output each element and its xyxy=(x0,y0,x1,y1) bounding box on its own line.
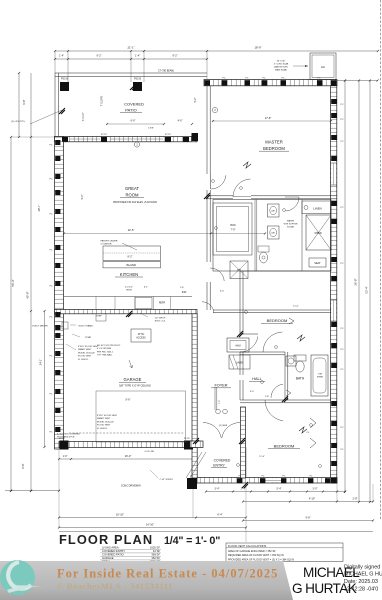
svg-text:369 SF: 369 SF xyxy=(151,553,160,557)
lav fixture lower xyxy=(268,226,280,239)
svg-text:3'-0": 3'-0" xyxy=(313,487,318,490)
patio post PSC-B left xyxy=(60,82,69,91)
front wall stub left xyxy=(190,441,203,448)
extension line master corner xyxy=(206,51,208,80)
shower X diagonal 1 xyxy=(306,215,331,250)
right dim line B xyxy=(358,81,360,503)
svg-text:GARAGE: GARAGE xyxy=(124,377,142,382)
tub/shower xyxy=(311,355,328,396)
svg-text:45'-8": 45'-8" xyxy=(26,291,30,298)
svg-text:PSC-B: PSC-B xyxy=(61,78,68,80)
svg-text:17'-8": 17'-8" xyxy=(265,116,272,120)
svg-text:5'-0 1/2": 5'-0 1/2" xyxy=(125,287,133,289)
svg-text:PC: PC xyxy=(341,449,344,451)
entry step diagonal 1 xyxy=(190,452,206,478)
bedroom3 entry door arc xyxy=(265,400,283,421)
foyer column circles xyxy=(216,409,221,414)
laundry block south wall xyxy=(240,270,331,272)
svg-text:SMART VENT: SMART VENT xyxy=(78,348,92,351)
svg-text:COVERED PATIO: COVERED PATIO xyxy=(102,553,124,557)
svg-text:CONC DRIVEWAY: CONC DRIVEWAY xyxy=(121,485,142,488)
svg-text:36'-8": 36'-8" xyxy=(354,278,358,285)
svg-text:PC: PC xyxy=(281,78,284,80)
range box xyxy=(135,298,152,309)
svg-text:FLOOD VENT CALCULATIONS: FLOOD VENT CALCULATIONS xyxy=(228,544,266,548)
svg-text:SOLAR: SOLAR xyxy=(287,226,295,229)
svg-text:PC: PC xyxy=(341,207,344,209)
line above title xyxy=(59,531,373,533)
svg-text:FL 16001.1: FL 16001.1 xyxy=(78,359,89,361)
svg-text:MODEL 1540-520: MODEL 1540-520 xyxy=(78,352,96,354)
counter division xyxy=(134,297,136,310)
svg-text:1'-4": 1'-4" xyxy=(135,55,140,58)
posts along south exterior wall xyxy=(237,478,242,483)
BeachesMLS teal wave logo xyxy=(0,560,43,595)
bottom-left horizontal dim connector xyxy=(5,490,60,492)
svg-text:4'-10": 4'-10" xyxy=(309,497,315,500)
svg-text:ISLAND: ISLAND xyxy=(126,263,136,267)
covered patio top tie-beam wall xyxy=(55,72,207,74)
bath west wall xyxy=(284,352,286,400)
svg-text:PC: PC xyxy=(49,317,52,319)
svg-text:11'-4": 11'-4" xyxy=(259,456,265,458)
counter division xyxy=(153,297,155,310)
kitchen counter front edge xyxy=(64,296,192,298)
SE corner post xyxy=(331,478,337,484)
hall-laundry door arc xyxy=(210,268,224,281)
svg-text:FL 16001.1: FL 16001.1 xyxy=(97,428,108,430)
left dim line 24'-1 xyxy=(44,311,46,447)
svg-text:W SCREEN 4 FLR: W SCREEN 4 FLR xyxy=(57,437,75,439)
BEDROOM underline xyxy=(259,150,289,152)
svg-text:ROOM: ROOM xyxy=(125,192,139,197)
island inner dashed line xyxy=(103,252,161,254)
master south wall east part xyxy=(251,195,337,197)
right exterior wall (hatched) xyxy=(331,86,337,483)
bath door arc xyxy=(271,384,283,398)
svg-text:FLOOD VENT: FLOOD VENT xyxy=(78,356,92,358)
extension line post 1 xyxy=(67,51,69,82)
garage south wall xyxy=(59,442,193,448)
hall west wall lower xyxy=(239,352,241,375)
leader tstat xyxy=(72,334,80,337)
kitchen dim line 22'-5 xyxy=(64,233,265,235)
svg-text:9'-8": 9'-8" xyxy=(22,99,26,104)
svg-text:PATIO: PATIO xyxy=(125,107,136,112)
svg-text:For Inside Real Estate - 04/07: For Inside Real Estate - 04/07/2025 xyxy=(57,567,278,581)
svg-text:GARAGE: GARAGE xyxy=(102,556,114,560)
svg-text:LIVING AREA: LIVING AREA xyxy=(102,546,119,550)
leader step xyxy=(140,313,148,317)
svg-text:PSC-B: PSC-B xyxy=(134,78,141,80)
svg-text:6'-0": 6'-0" xyxy=(220,291,225,293)
svg-text:9'-6": 9'-6" xyxy=(126,399,131,402)
lowest dim row 14'-10 xyxy=(59,527,246,529)
right lower dim row xyxy=(243,520,373,522)
svg-text:7'-9": 7'-9" xyxy=(231,229,236,232)
svg-text:LINEN: LINEN xyxy=(313,207,322,211)
svg-text:ATTIC: ATTIC xyxy=(138,333,145,336)
svg-text:2'-8": 2'-8" xyxy=(265,396,270,398)
svg-text:COVERED: COVERED xyxy=(124,101,144,106)
garage floor arrow xyxy=(129,360,133,368)
svg-text:5'-4": 5'-4" xyxy=(277,487,282,490)
svg-text:PC: PC xyxy=(222,78,225,80)
svg-text:TYP THIS WALL: TYP THIS WALL xyxy=(97,354,113,357)
svg-text:PC: PC xyxy=(245,78,248,80)
svg-text:LINEN: LINEN xyxy=(236,362,244,365)
WIC walk-in closet shelving xyxy=(213,203,252,255)
covered entry SW post xyxy=(187,478,197,489)
linen closet 2 (hall) xyxy=(229,355,250,369)
reference bubble circle xyxy=(134,142,139,147)
right dim line A xyxy=(344,81,346,493)
svg-text:CT-(TIE BEAM): CT-(TIE BEAM) xyxy=(158,70,174,73)
bedroom 2 window gap xyxy=(331,300,336,321)
elect meter box xyxy=(62,322,68,329)
bedroom 3 north wall xyxy=(240,399,331,401)
svg-text:BEDROOM: BEDROOM xyxy=(263,146,285,151)
svg-text:7'-4 1/2": 7'-4 1/2" xyxy=(82,112,85,121)
bath door opening xyxy=(285,196,299,198)
svg-text:SHWR: SHWR xyxy=(314,232,322,235)
svg-text:PC PC: PC PC xyxy=(184,438,191,440)
front door arc right xyxy=(222,423,240,438)
counter division xyxy=(95,297,97,310)
garage width dim 16'-0 xyxy=(59,458,193,460)
leader pantry to island xyxy=(122,243,137,250)
bottom dim row 2 xyxy=(243,501,373,503)
svg-text:PC: PC xyxy=(341,263,344,265)
svg-text:PC: PC xyxy=(49,356,52,358)
ref bubble 2 xyxy=(212,107,217,112)
svg-text:NO EXT GYP PRODUCT: NO EXT GYP PRODUCT xyxy=(97,345,121,347)
svg-text:6/W: 6/W xyxy=(182,290,187,294)
posts PC along right exterior wall xyxy=(331,99,336,104)
svg-text:PC: PC xyxy=(49,250,52,252)
BEDROOM2 underline xyxy=(261,322,293,324)
svg-text:6'-6": 6'-6" xyxy=(131,120,136,123)
leader line steps xyxy=(150,470,158,478)
master toilet xyxy=(258,246,269,252)
bedroom 3 west wall xyxy=(241,407,246,478)
svg-text:MASTER: MASTER xyxy=(265,140,282,145)
master door leaf xyxy=(209,174,211,189)
covered patio left wall xyxy=(54,73,56,137)
right edge dashed property line xyxy=(380,0,382,520)
svg-text:14'-10": 14'-10" xyxy=(146,522,154,526)
bedroom 3 closet rod zigzag xyxy=(310,418,316,448)
svg-text:REQUIRED AREA OF FLOOD VENT =: REQUIRED AREA OF FLOOD VENT = 350 SQ IN xyxy=(228,554,284,557)
svg-text:16'-10": 16'-10" xyxy=(116,512,124,516)
bedroom 3 window gap xyxy=(262,478,283,482)
svg-text:BATH: BATH xyxy=(296,377,305,381)
svg-text:PC: PC xyxy=(49,394,52,396)
lower dim row 16'-10 / 6'-4 xyxy=(59,517,246,519)
svg-text:6'-4": 6'-4" xyxy=(217,512,222,516)
leader AC note xyxy=(293,65,308,67)
svg-text:PC: PC xyxy=(49,432,52,434)
step edge line 2 xyxy=(105,314,107,321)
covered entry east edge xyxy=(245,448,247,479)
NE corner post xyxy=(331,80,337,85)
bottom dim row 1 xyxy=(206,491,345,493)
bath north wall / hall xyxy=(240,351,285,353)
master bedroom door arc xyxy=(233,179,250,197)
svg-text:SMART VENT: SMART VENT xyxy=(97,417,111,420)
master window center line xyxy=(333,163,335,185)
left dim line 9'-8 patio xyxy=(18,73,20,137)
svg-text:PC: PC xyxy=(341,141,344,143)
HALL underline xyxy=(249,380,265,382)
bath entry door arc xyxy=(286,197,300,211)
svg-text:FLOOR PLAN: FLOOR PLAN xyxy=(59,532,153,547)
counter division xyxy=(114,297,116,310)
north wall window line 2 xyxy=(110,138,163,140)
svg-text:2'-8": 2'-8" xyxy=(353,497,358,500)
bedroom 2 door leaf xyxy=(240,333,258,335)
master interior dim line xyxy=(212,120,331,122)
extension line left patio corner xyxy=(54,51,56,73)
extension line right down xyxy=(372,484,374,502)
master entry door arc xyxy=(211,175,226,189)
svg-text:3'-4": 3'-4" xyxy=(215,487,220,490)
svg-text:18'-9": 18'-9" xyxy=(254,46,261,50)
toilet xyxy=(294,355,306,361)
svg-text:WTR SOFTNR: WTR SOFTNR xyxy=(284,224,298,226)
bedroom 2 closet zigzag xyxy=(289,318,294,324)
svg-text:8"X16" FLOOD VENT: 8"X16" FLOOD VENT xyxy=(78,346,99,348)
extension line garage left down xyxy=(58,449,60,528)
hall west wall lower xyxy=(239,380,241,400)
extension line house SE corner down xyxy=(336,483,338,502)
garage SW corner post xyxy=(60,441,69,450)
patio interior dim line xyxy=(107,123,164,125)
svg-text:(MATCH ELEV: (MATCH ELEV xyxy=(274,66,288,69)
svg-text:12:42:28 -04'0: 12:42:28 -04'0 xyxy=(344,587,378,593)
switch squiggle master xyxy=(243,162,251,168)
linen closet xyxy=(302,201,331,214)
step edge line 3 xyxy=(96,320,106,322)
svg-text:PC: PC xyxy=(341,328,344,330)
svg-text:Date: 2025.03: Date: 2025.03 xyxy=(344,579,378,585)
svg-text:22'-5": 22'-5" xyxy=(128,228,135,232)
svg-text:PROVIDED AREA OF FLOOD VENT =: PROVIDED AREA OF FLOOD VENT = (3) X 3 = … xyxy=(228,558,294,561)
extension line garage right down xyxy=(192,449,194,518)
svg-text:ELECT METER: ELECT METER xyxy=(32,325,48,327)
svg-text:PC: PC xyxy=(310,475,313,477)
svg-text:KITCHEN: KITCHEN xyxy=(120,272,138,277)
svg-text:28'-7": 28'-7" xyxy=(37,205,41,212)
svg-text:PC: PC xyxy=(341,119,344,121)
master shower xyxy=(306,215,331,250)
WIC east wall xyxy=(254,200,256,272)
south exterior wall (hatched) xyxy=(197,478,337,484)
svg-text:9'-8": 9'-8" xyxy=(306,516,311,519)
svg-text:24'-1": 24'-1" xyxy=(39,359,43,366)
master bath block outline xyxy=(213,200,331,272)
extension line post 2b xyxy=(143,51,145,82)
ENTRY underline xyxy=(211,467,227,469)
svg-text:1/2" DROP: 1/2" DROP xyxy=(155,317,166,319)
svg-text:MODEL 1540-520: MODEL 1540-520 xyxy=(97,421,115,423)
great room north wall (hatched) xyxy=(55,137,198,142)
lav fixture upper xyxy=(268,204,280,217)
leader flood vent left wall xyxy=(66,344,76,350)
right top dim connector xyxy=(337,80,378,82)
svg-text:9'-2": 9'-2" xyxy=(81,194,84,199)
island label box xyxy=(103,262,161,268)
left dim line 45'-8 xyxy=(30,73,32,491)
master west wall stub below door xyxy=(206,190,208,200)
svg-text:ELECT PANEL: ELECT PANEL xyxy=(79,324,94,327)
svg-text:SHWR: SHWR xyxy=(317,377,324,379)
svg-text:3'-0": 3'-0" xyxy=(250,391,255,393)
svg-text:PROPOSED FIN FLR ELEV +5.92 NA: PROPOSED FIN FLR ELEV +5.92 NAVD xyxy=(113,201,157,204)
left exterior wall (hatched) xyxy=(55,137,64,450)
shower X diagonal 2 xyxy=(306,215,331,250)
master bedroom window gap xyxy=(331,163,336,185)
kitchen-foyer door arc xyxy=(202,302,214,313)
bedroom 2 door arc xyxy=(240,337,258,353)
svg-text:+5.2V 4IN: +5.2V 4IN xyxy=(144,451,154,453)
svg-text:WATER: WATER xyxy=(287,220,295,223)
svg-text:56'-4": 56'-4" xyxy=(11,279,15,286)
posts PC along left exterior wall xyxy=(55,140,60,145)
shower seat xyxy=(309,258,326,267)
svg-text:PC PC: PC PC xyxy=(165,134,172,136)
svg-text:4'-6": 4'-6" xyxy=(178,120,183,123)
svg-text:21'-1": 21'-1" xyxy=(127,46,134,50)
svg-text:PC: PC xyxy=(49,179,52,181)
svg-text:PC: PC xyxy=(341,104,344,106)
bath window zigzag xyxy=(286,390,291,396)
FOYER underline xyxy=(211,387,231,389)
master south wall west part xyxy=(207,195,233,197)
svg-text:PC: PC xyxy=(341,427,344,429)
hall west wall / kitchen east wall xyxy=(206,200,208,263)
svg-text:1'-6": 1'-6" xyxy=(180,287,185,289)
bedroom 3 window center line xyxy=(262,479,283,481)
kitchen island xyxy=(103,246,161,261)
hall west wall lower part xyxy=(206,282,208,310)
garage SE corner post xyxy=(184,441,193,450)
svg-text:1'-0": 1'-0" xyxy=(63,455,68,458)
svg-text:7'-0": 7'-0" xyxy=(219,400,221,405)
garage north wall / kitchen divider xyxy=(55,310,198,314)
foyer east wall partial xyxy=(214,387,216,410)
svg-text:6'-8": 6'-8" xyxy=(21,463,25,468)
svg-text:PC: PC xyxy=(49,214,52,216)
svg-text:MAIN SLAB): MAIN SLAB) xyxy=(275,69,287,72)
ROOM underline xyxy=(120,197,144,199)
svg-text:7'-10" STEPS: 7'-10" STEPS xyxy=(159,479,173,481)
svg-text:4' X 8' WR MIN: 4' X 8' WR MIN xyxy=(97,348,112,350)
svg-text:(2)-#5'S(TYP): (2)-#5'S(TYP) xyxy=(11,121,25,123)
svg-text:8"X16" FLOOD VENT: 8"X16" FLOOD VENT xyxy=(97,415,118,417)
svg-text:4" CONC SLAB: 4" CONC SLAB xyxy=(274,63,289,66)
garage door ceiling outline xyxy=(96,391,186,442)
garage east wall / foyer west wall xyxy=(192,314,197,478)
svg-text:BEDROOM: BEDROOM xyxy=(274,443,295,448)
switch squiggle bedroom2 xyxy=(297,335,305,341)
svg-text:TUB: TUB xyxy=(318,374,323,376)
svg-text:4 3/8": 4 3/8" xyxy=(148,128,154,130)
svg-text:PC: PC xyxy=(262,475,265,477)
patio post PSC-B right xyxy=(133,82,142,91)
bedroom 2 window center line xyxy=(333,300,335,321)
svg-text:(2) 3068: (2) 3068 xyxy=(219,425,228,427)
svg-text:MICHAEL G HU: MICHAEL G HU xyxy=(344,572,382,578)
svg-text:COVERED: COVERED xyxy=(214,459,231,463)
svg-text:PC PC: PC PC xyxy=(101,134,108,136)
master wing north wall (hatched) xyxy=(204,80,337,86)
entry step diagonal 2 xyxy=(186,452,202,478)
hall-bedroom2 door arc xyxy=(263,332,282,352)
svg-text:BEDROOM: BEDROOM xyxy=(267,318,288,323)
AHU closet box xyxy=(227,338,249,352)
flood vent calculations box xyxy=(226,543,343,562)
left dim line 56'-4 xyxy=(10,137,12,491)
svg-text:PC: PC xyxy=(49,145,52,147)
svg-text:HALL: HALL xyxy=(252,377,262,381)
svg-text:7' SLOPE: 7' SLOPE xyxy=(101,95,104,106)
svg-text:352 SF: 352 SF xyxy=(151,556,160,560)
svg-text:36" X 36": 36" X 36" xyxy=(277,61,286,63)
svg-text:44 SF: 44 SF xyxy=(153,549,161,553)
svg-text:FOYER: FOYER xyxy=(214,384,227,388)
svg-text:PC: PC xyxy=(283,475,286,477)
svg-text:COUNTER: COUNTER xyxy=(101,243,112,245)
svg-text:FLOOD VENT: FLOOD VENT xyxy=(97,425,111,427)
svg-text:WDW: WDW xyxy=(126,290,133,292)
svg-text:© BeachesMLS - 341534111: © BeachesMLS - 341534111 xyxy=(57,581,173,591)
posts along great room north wall xyxy=(62,137,68,142)
electrical outlet symbols xyxy=(212,180,215,183)
svg-text:5/8" TYPE X GYP CEILING: 5/8" TYPE X GYP CEILING xyxy=(119,384,151,388)
svg-text:Digitally signed: Digitally signed xyxy=(344,565,380,571)
svg-text:STEP: STEP xyxy=(96,316,102,318)
svg-text:PER FBC 1603.1: PER FBC 1603.1 xyxy=(97,351,114,353)
svg-text:ELEV +5.4: ELEV +5.4 xyxy=(155,321,166,323)
svg-text:1/4" = 1'- 0": 1/4" = 1'- 0" xyxy=(164,535,220,547)
leader line to post xyxy=(30,110,62,124)
bedroom2 west wall xyxy=(239,310,241,334)
svg-text:AHU: AHU xyxy=(235,344,241,348)
GARAGE underline xyxy=(119,381,146,383)
svg-text:PC: PC xyxy=(262,78,265,80)
svg-text:11'-0": 11'-0" xyxy=(293,306,299,308)
bath vanity xyxy=(286,356,296,366)
front door arc left xyxy=(203,423,221,438)
step edge line 1 xyxy=(95,314,97,321)
svg-text:8'-2": 8'-2" xyxy=(128,255,133,258)
svg-text:PC: PC xyxy=(341,369,344,371)
right dim line C xyxy=(369,81,371,503)
bedroom 2 north wall xyxy=(213,309,331,311)
extension line entry right down xyxy=(245,483,247,542)
svg-text:16'-0": 16'-0" xyxy=(125,454,132,458)
bath block inner wall vertical xyxy=(301,200,303,272)
extension line north wall to left dims xyxy=(11,136,54,138)
svg-text:8+IN LONG LOUVERED: 8+IN LONG LOUVERED xyxy=(57,434,80,436)
svg-text:PC: PC xyxy=(49,286,52,288)
svg-text:PANTRY UNDER: PANTRY UNDER xyxy=(100,239,117,242)
svg-text:53'-4": 53'-4" xyxy=(365,286,369,293)
svg-text:1625 SF: 1625 SF xyxy=(150,546,161,550)
AC condenser pad xyxy=(310,53,336,80)
svg-text:SEAT: SEAT xyxy=(314,262,321,265)
